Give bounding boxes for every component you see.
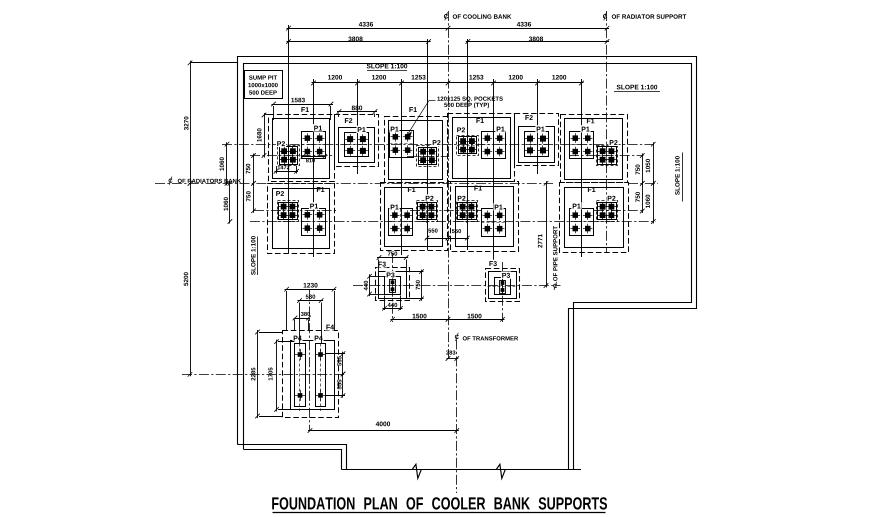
centerline P2 column left (vertical) — [288, 25, 290, 253]
dimension 750 lower right — [642, 181, 644, 213]
pedestal P1 row2 no1 — [302, 209, 326, 236]
dimension 1500 left — [391, 319, 451, 321]
pedestal P2 row2 no4 — [598, 203, 617, 220]
dimension 5200 left — [190, 181, 192, 376]
centerline of transformer (vertical) — [456, 340, 458, 494]
dimension 530 above F4 — [298, 300, 324, 302]
footing F2 row1 no1 — [335, 115, 379, 167]
centerline radiators bank right segment — [628, 183, 658, 185]
dimension 3808 right — [466, 41, 609, 43]
footing F1 row1 no1 — [269, 115, 335, 182]
dimension 4000 — [308, 430, 459, 432]
dimension 555 lower right of F4 — [342, 372, 344, 398]
dimension 1472 under P2 row1 no1 — [275, 171, 299, 173]
centerline of radiator support (vertical) — [606, 11, 608, 253]
dimension 3808 left — [287, 41, 431, 43]
centerline row2 P2 segments — [254, 210, 336, 212]
title foundation plan of cooler bank supports — [272, 497, 607, 509]
label centerline of radiators bank — [169, 179, 173, 183]
dimension 4336 left — [287, 28, 451, 30]
centerline P1 column 3 — [493, 79, 495, 263]
centerline footing F3 left (vertical) — [392, 253, 394, 322]
pedestal P1 row2 no3 — [482, 209, 506, 237]
pedestal P2 row1 no4 — [598, 147, 617, 165]
dimension chain 1200/1200/1253/1253/1200/1200 — [312, 82, 584, 84]
note 120x125 sq pockets with leader — [437, 97, 502, 102]
footing F4 solid outline — [291, 341, 335, 410]
pedestal P4 right strip — [316, 344, 326, 407]
centerline of pipe support (horizontal) — [353, 285, 561, 287]
pedestal P2 row1 no3 — [459, 137, 477, 154]
dimension 4336 right — [446, 28, 609, 30]
slab boundary inner polyline — [244, 64, 692, 470]
centerline row1 P2 mid segment — [407, 156, 449, 158]
centerline row1 P2 right segment — [569, 155, 644, 157]
pedestal P2 row1 no2 — [419, 148, 437, 165]
pedestal P2 row2 no2 — [418, 203, 437, 220]
dimension 380 above F4 — [294, 318, 311, 320]
break mark left on bottom edge — [412, 464, 421, 478]
dimension 3270 left — [190, 61, 192, 186]
centerline row2 P1 horizontal — [250, 221, 656, 223]
sump pit box — [245, 71, 283, 99]
footing F4 dashed outline — [283, 331, 339, 418]
dimension 1230 above F4 — [285, 289, 336, 291]
centerline P2 column inner-right — [467, 39, 469, 250]
footing F3 right — [486, 269, 520, 302]
dimension 283 — [447, 358, 459, 360]
footing F1 row1 no4 — [561, 115, 628, 183]
footing F1 row2 no2 — [381, 183, 448, 251]
slab boundary bottom-left step inner — [244, 450, 342, 470]
dimension 1705 left of F4 — [276, 340, 278, 412]
centerline F4 center (vertical) — [309, 290, 311, 431]
bolts on P4 strips — [298, 352, 303, 357]
centerline row1 P1 horizontal — [222, 144, 654, 146]
dimension 1583 — [272, 104, 334, 106]
slab boundary outer polyline — [238, 57, 697, 470]
dimension 440 below F3 left — [383, 308, 403, 310]
footing F1 row2 no1 — [268, 184, 335, 254]
dimension 1060 lower right — [653, 181, 655, 223]
centerline F4 group (horizontal) — [182, 374, 345, 376]
label slope 1:100 top — [367, 64, 408, 69]
centerline footing F3 right (vertical) — [502, 262, 504, 322]
label slope 1:100 far right rotated — [675, 156, 679, 195]
label centerline of pipe support rotated — [553, 284, 557, 288]
pedestal P1 row1 no1 — [302, 132, 326, 159]
dimension 2771 pipe support — [546, 181, 548, 287]
dimension 550 right of cooling CL — [447, 238, 469, 240]
label slope 1:100 left rotated — [251, 236, 255, 275]
dimension 810 under P1 row1 no1 — [302, 156, 327, 158]
slab bottom edge — [342, 469, 582, 471]
pedestal P1 row1 no2 — [390, 131, 414, 158]
dimension 440 left of F3 left — [369, 274, 371, 296]
footing F1 row1 no2 — [385, 117, 448, 183]
dimension 2285 left of F4 — [257, 330, 259, 418]
dimension 555 upper right of F4 — [342, 352, 344, 376]
dimension 750 above F3 left — [377, 257, 408, 259]
centerline P1 column 4 — [581, 79, 583, 257]
dimension 750 upper left — [253, 154, 255, 186]
dimension 750 right of F3 left — [421, 270, 423, 301]
label slope 1:100 right — [617, 85, 658, 90]
pedestal P1 row1 no3 — [482, 132, 506, 159]
label centerline of radiator support — [603, 14, 607, 19]
footing F3 left — [376, 268, 410, 301]
footing F1 row1 no3 — [448, 114, 515, 182]
pedestal P1 row2 no2 — [389, 209, 413, 236]
dimension 750 upper right — [642, 154, 644, 186]
centerline of cooling bank (vertical) — [448, 11, 450, 361]
dimension 550 left of cooling CL — [426, 238, 450, 240]
dimension 880 — [337, 111, 377, 113]
dimension 1060 lower left — [229, 181, 231, 223]
centerline of radiators bank (horizontal) — [155, 183, 553, 185]
label centerline of cooling bank — [444, 14, 448, 19]
centerline P2 column inner-left — [427, 39, 429, 250]
dimension 1500 right — [446, 319, 505, 321]
dimension 750 lower left — [253, 181, 255, 213]
pedestal P2 row1 no1 — [280, 147, 298, 165]
pedestal P2 row2 no3 — [458, 203, 477, 220]
pedestal P4 left strip — [295, 344, 306, 407]
footing F1 row2 no4 — [560, 183, 629, 253]
dimension 1050 upper right — [653, 142, 655, 185]
footing F2 row1 no2 — [515, 114, 559, 166]
centerline F4 strip left (vertical) — [299, 344, 301, 412]
label centerline of transformer — [455, 335, 459, 339]
centerline row1 P2 left segment — [250, 155, 333, 157]
pedestal P1 row2 no4 — [570, 209, 594, 236]
pedestal P1 row1 no4 — [570, 132, 594, 159]
break mark right on bottom edge — [496, 464, 505, 478]
centerline F4 strip right (vertical) — [320, 344, 322, 412]
centerline F2 column left — [357, 79, 359, 174]
centerline F2 column right — [537, 79, 539, 174]
pedestal P2 row2 no1 — [279, 203, 298, 220]
slab boundary bottom-left step outer — [238, 445, 347, 470]
footing F1 row2 no3 — [451, 182, 519, 252]
dimension 1680 left — [264, 113, 266, 158]
centerline P1 column 2 — [401, 79, 403, 255]
centerline P1 column 1 — [313, 79, 315, 257]
dimension 1060 left — [226, 142, 228, 185]
